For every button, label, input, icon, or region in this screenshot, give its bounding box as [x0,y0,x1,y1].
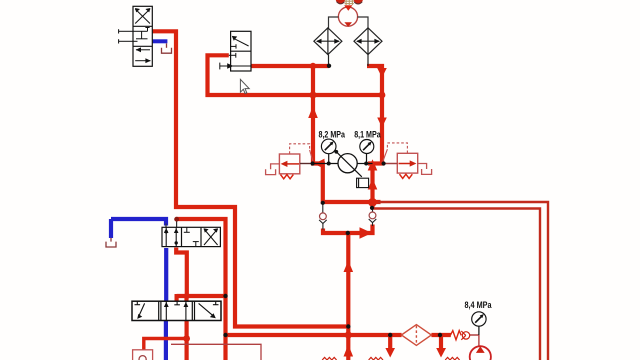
valve V4 cell3 oblique arrow [199,301,219,318]
wire thin link left relief to junction [300,163,312,165]
valve V2 bottom cell through path with arrow [220,53,251,70]
cut-off spring hatch right [445,357,459,360]
pressure gauge 8,4 MPa [472,312,486,335]
filter on bottom rail [401,325,431,346]
tank at valve V1 [162,43,172,53]
flow arrow up on x313 [308,106,318,118]
relief right tank [418,164,432,175]
wire thin red rail y208.5 to right corner down [373,209,541,360]
wire red bottom supply rail y335 left part to filter [226,333,402,337]
valve V2 body 2-position top-middle [231,31,251,71]
tank left of blue line [106,238,116,247]
node dot y233 tee [346,231,350,235]
relief left tank [266,164,280,175]
pressure switch box lower-left [133,350,153,360]
wire red below valve V4 to bottom edge [185,321,189,360]
wire blue between valve V3 bottom and valve V4 top [164,248,168,301]
flow arrow up on x372 lower [368,179,378,190]
wire P-line from valve V1 right port down and across to node under pump line [152,31,348,326]
valve V3 cell2 blocked ports [184,227,199,246]
hydraulic motor M1 top [338,7,357,26]
node dot x225 y296 [223,294,227,298]
valve V4 cell2 through lines [164,301,188,320]
valve V2 top cell oblique arrow [231,36,249,49]
wire motor right stub [358,17,369,28]
flow arrow down on x382 upper [377,68,387,78]
node dot gauge right tap [364,162,368,166]
wire red stub down with arrow at x390 [388,335,392,351]
check valve left of bridge [322,203,324,214]
junction blob x313 y66 [310,63,316,69]
junction blob x313 y95 [309,91,316,98]
motor load coupling cut off at top edge [336,0,363,5]
valve V1 bottom cell flow paths [135,47,151,63]
pressure relief valve left [279,154,299,174]
wire red drop from y296 into valve V4 port A [175,294,179,301]
wire red drop from y296 into valve V4 port B [184,294,188,301]
heat exchanger right [354,28,382,55]
metering adjuster box [357,178,369,187]
valve V3 body 4/3 horizontal [162,227,220,246]
node dot x390 y335 [388,333,392,337]
valve V3 cell3 crossed arrows [204,228,218,245]
wire red branch at y219 from valve V3 P-port to vertical x225 down to bottom [177,219,226,360]
node dot right check top [370,206,374,210]
cut-off spring hatch left [322,357,336,360]
flow arrow up on x348 mid [344,261,354,273]
wire left heat exchanger to y66 node [328,55,330,65]
wire black stub valve V3 blue port top [165,224,167,228]
flow arrow up on x348 bottom [344,345,354,357]
valve V4 body 4/3 horizontal lower [132,301,221,320]
pump circle bottom right cut off [478,335,480,346]
wire red from valve V2 left port via corner down to y95 line across to x382 [208,55,383,95]
flow arrow left at relief junction [314,159,324,169]
junction blob x186.6 y338.5 [183,335,190,342]
flow arrow down at x390 stub [385,348,395,358]
node dot x225 y335 [223,333,227,337]
pressure relief valve right [397,153,417,173]
wire red from left relief junction corner down to y202 rail [311,164,381,203]
wire right heat exchanger to red corner [367,55,369,66]
wire red jog from valve V3 bottom port to y296 line [176,248,187,297]
junction blob x348 y335 [345,331,352,338]
wire red vertical x372 from relief axis down to y208 rail [370,164,374,210]
wire blue below valve V4 to bottom edge [164,321,168,360]
node dot P branch at y219 [174,217,179,222]
wire blue drop at x111 to tank [109,219,113,238]
wire red vertical x313 from y66 down to relief junction [311,66,315,164]
node dot x382 relief axis [382,161,386,165]
wire blue tank line from left tank to valve V3 port [111,219,166,226]
svg-text:8,1 MPa: 8,1 MPa [354,129,381,139]
wire blue stub at valve V1 right to tank [152,39,167,43]
relief left pilot dashed [290,144,313,162]
wire red bottom rail y335 filter to check valve node [431,333,450,337]
flow arrow right on y233 [360,227,373,239]
junction blob x382 y95 [379,92,386,99]
wire red stub down with arrow at x441 [439,335,443,351]
heat exchanger left [314,28,342,55]
wire thin link right relief to x382 [384,163,397,165]
pressure gauge left 8,2 MPa [321,139,336,163]
flow control valve (metering circle) [313,163,338,165]
valve V1 top cell crossed arrows [135,8,150,24]
wire red y338.5 branch to pressure switch box [144,339,187,350]
flow arrow down at x441 stub [436,348,446,358]
wire red y66 from valve V2 right port to node under left heat exchanger [251,64,329,68]
wire red y233 between check valve bridge bottoms [323,225,373,234]
thin boundary line of power pack [171,344,261,360]
relief right spring [400,174,413,178]
check valve right of bridge [372,209,374,213]
node dot x440 y335 [438,333,442,337]
wire black stub valve V3 red port top [176,221,178,227]
wire motor left stub [329,17,339,28]
wire red branch y296 between valve V4 ports and x225 vertical [177,294,226,298]
wire thin red from spring check valve to gauge tee [470,334,479,336]
motor inlet triangle [344,5,352,11]
node dot x348 y326.5 [346,324,350,328]
wire red from right heat exchanger foot right and down x382 to relief junction [367,66,382,164]
mouse cursor [240,79,249,93]
wire thin red rail y202 to right edge corner down [378,202,548,360]
relief right pilot dashed [383,143,408,162]
motor outlet triangle [344,22,352,27]
valve V1 middle cell port routing [119,28,150,44]
flow arrow down on x382 lower [377,118,387,128]
junction blob x372 y202 [368,198,377,207]
node dot left check top [321,201,325,205]
svg-text:8,4 MPa: 8,4 MPa [465,300,492,310]
valve V1 body 4/3 vertical top-left [133,6,152,66]
valve V3 cell1 through paths [164,227,179,246]
flow arrow up on x372 at relief axis [368,159,378,170]
node dot under left heat exchanger [327,64,331,68]
svg-text:8,2 MPa: 8,2 MPa [319,129,346,139]
valve V4 cell1 oblique arrow [135,301,145,319]
node dot gauge left tap [327,162,331,166]
wire red short link between metering junction and x382 on relief axis [368,161,384,165]
pressure gauge right 8,1 MPa [360,140,374,164]
cut-off spring hatch middle [369,357,383,360]
spring loaded check valve bottom right [450,331,461,340]
junction blob x186.8 y296 [184,293,190,299]
wire red vertical x348 from bridge down to bottom edge [346,233,350,360]
valve V3 cell1 port dots [165,230,168,233]
relief left spring [281,175,294,179]
node dot left relief junction [311,161,315,165]
